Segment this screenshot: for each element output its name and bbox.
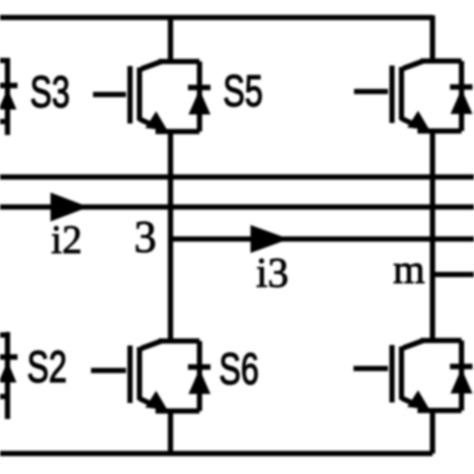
bus line A (upper output line) — [0, 174, 474, 179]
transistor S5 (IGBT with anti-parallel diode, middle leg top) — [130, 62, 211, 132]
arrow: current i3 on bus C — [251, 225, 290, 253]
svg-text:m: m — [393, 246, 425, 292]
wire: bus line C (output line i3 from node 3) — [171, 236, 474, 241]
wire: gate lead of S5 — [93, 92, 126, 97]
wire: bus line D (output line from node m) — [433, 272, 474, 277]
wire: middle leg midpoint (S5 emitter to S6 collector) — [168, 132, 173, 342]
svg-text:3: 3 — [134, 212, 157, 262]
wire: gate lead of S6 — [91, 368, 126, 373]
wire: gate lead of right leg top IGBT — [354, 89, 388, 94]
svg-text:S2: S2 — [27, 343, 67, 392]
wire: right leg collector to top rail corner — [430, 15, 435, 61]
top DC rail — [0, 15, 433, 20]
svg-text:i3: i3 — [256, 251, 289, 297]
wire: gate lead of right leg bottom IGBT — [354, 366, 389, 371]
svg-text:S5: S5 — [223, 67, 263, 116]
wire: right leg midpoint vertical — [430, 131, 435, 341]
transistor: right leg top IGBT (label off-frame) — [392, 61, 473, 131]
transistor S3 (partial IGBT cell at left edge, diode branch visible) — [0, 59, 18, 136]
wire: S5 collector to top rail — [168, 15, 173, 62]
arrow: current i2 on bus B — [51, 193, 89, 222]
wire: S6 emitter to bottom rail — [168, 411, 173, 455]
transistor S6 (IGBT with anti-parallel diode, middle leg bottom) — [130, 341, 211, 411]
wire: right leg emitter to bottom rail corner — [430, 411, 435, 454]
svg-text:i2: i2 — [51, 217, 82, 262]
transistor S2 (partial IGBT cell at left edge, diode branch visible) — [0, 332, 18, 419]
svg-text:S6: S6 — [219, 345, 259, 394]
transistor: right leg bottom IGBT (label off-frame) — [392, 341, 473, 411]
bottom DC rail — [0, 451, 433, 456]
svg-text:S3: S3 — [30, 68, 70, 117]
bus line B (output line i2) — [0, 204, 474, 209]
